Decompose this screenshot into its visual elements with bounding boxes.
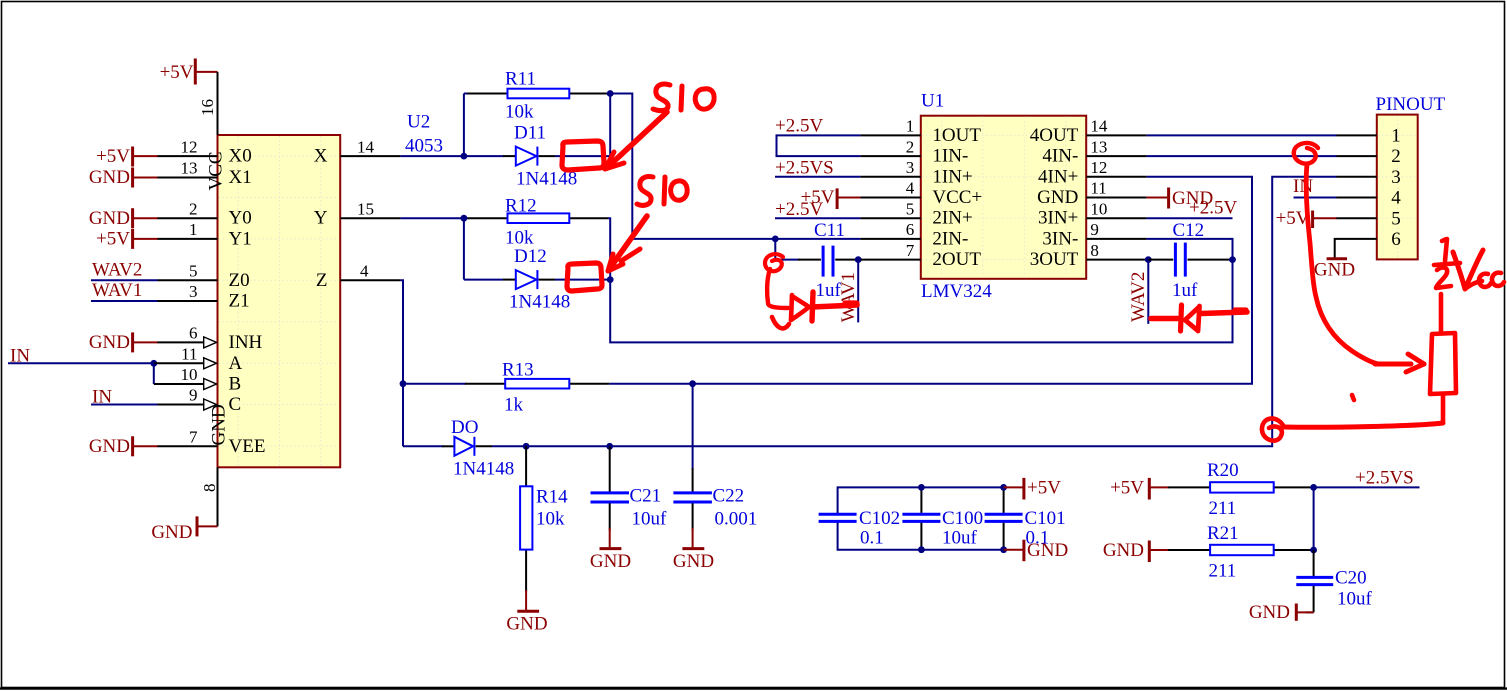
svg-text:+5V: +5V <box>1110 477 1144 498</box>
svg-text:+5V: +5V <box>160 62 194 83</box>
svg-text:3: 3 <box>189 282 198 301</box>
pin 3 wire Z1 <box>158 300 218 302</box>
pin 5 wire Z0 <box>158 279 218 281</box>
power port +5V (R20 left) <box>1110 477 1169 499</box>
svg-text:R20: R20 <box>1207 460 1239 481</box>
svg-text:5: 5 <box>1391 208 1401 229</box>
pin 1 wire <box>861 134 921 136</box>
wire WAV1 stub <box>857 260 859 323</box>
svg-text:LMV324: LMV324 <box>921 281 992 302</box>
capacitor C22 <box>673 468 712 531</box>
svg-text:Y1: Y1 <box>229 228 252 249</box>
svg-text:C21: C21 <box>630 486 662 507</box>
svg-text:GND: GND <box>506 614 547 635</box>
pin 5 wire <box>861 217 921 219</box>
svg-text:Z: Z <box>316 270 328 291</box>
svg-text:GND: GND <box>89 167 130 188</box>
annotation handwriting 1/2 Vcc <box>1434 239 1504 289</box>
svg-text:211: 211 <box>1209 561 1237 582</box>
wire +2.5V pin5 <box>775 217 861 219</box>
svg-text:10: 10 <box>181 365 198 384</box>
power port GND (pin 7 VEE) <box>89 436 158 457</box>
svg-text:5: 5 <box>906 199 915 218</box>
power port GND (pin 11) <box>1147 188 1214 209</box>
svg-text:X0: X0 <box>229 146 252 167</box>
wire X to D11 node <box>400 155 467 157</box>
svg-text:10uf: 10uf <box>942 528 978 549</box>
annotation text 510 (lower) <box>637 176 687 205</box>
svg-text:+2.5V: +2.5V <box>1189 198 1237 219</box>
power port GND (pinout pin 6) <box>1314 259 1355 281</box>
svg-text:1IN+: 1IN+ <box>932 166 972 187</box>
svg-text:1: 1 <box>906 117 915 136</box>
svg-text:U1: U1 <box>921 91 944 112</box>
svg-text:C20: C20 <box>1335 568 1367 589</box>
wire +2.5VS <box>775 176 861 178</box>
wire D12 right <box>555 279 610 281</box>
svg-text:GND: GND <box>89 436 130 457</box>
svg-text:1N4148: 1N4148 <box>453 459 514 480</box>
svg-text:14: 14 <box>1090 117 1108 136</box>
svg-text:10k: 10k <box>536 509 565 530</box>
pin 6 wire INH <box>158 341 204 343</box>
svg-text:3IN+: 3IN+ <box>1038 208 1078 229</box>
pin 3 wire <box>861 176 921 178</box>
svg-text:9: 9 <box>189 386 198 405</box>
wire D11 right <box>555 155 610 157</box>
svg-text:4IN-: 4IN- <box>1042 146 1078 167</box>
wire DO row to PINOUT pin3 riser <box>492 177 1337 447</box>
node +2.5VS junction <box>1310 484 1317 491</box>
wire Z corner down <box>400 280 403 446</box>
node D12 right junction <box>607 276 614 283</box>
power port GND (R14 bottom) <box>506 590 547 635</box>
power port GND (C22 bottom) <box>673 528 714 572</box>
node X-left junction <box>461 153 468 160</box>
node R11 right junction <box>607 90 614 97</box>
wire C22 riser <box>692 384 694 470</box>
pin 9 wire <box>1086 238 1146 240</box>
pin 1 wire Y1 <box>158 238 218 240</box>
node C12 right junction <box>1229 256 1236 263</box>
svg-text:+2.5VS: +2.5VS <box>1355 468 1414 489</box>
svg-text:Y: Y <box>314 208 328 229</box>
pin 7 wire <box>861 259 921 261</box>
pin 2 wire Y0 <box>158 217 218 219</box>
pin 6 wire <box>861 238 921 240</box>
pin 15 wire Y <box>340 217 400 219</box>
wire pin14 to PINOUT pin1 <box>1147 134 1337 136</box>
pin 12 wire <box>1086 176 1146 178</box>
svg-text:8: 8 <box>200 484 219 493</box>
capacitor C21 <box>591 446 630 530</box>
power port GND (C21 bottom) <box>590 528 631 572</box>
node C101 bottom junction <box>1000 546 1007 553</box>
pinout pin 2 stub <box>1337 155 1377 157</box>
pin 11 input triangle <box>204 358 217 369</box>
diode D12 <box>503 270 555 289</box>
wire R13 row right to PINOUT riser <box>609 177 1252 384</box>
wire pin9 to C12 right <box>1147 239 1233 260</box>
capacitor C20 <box>1296 550 1333 612</box>
svg-text:0.1: 0.1 <box>860 528 884 549</box>
svg-text:1k: 1k <box>504 395 524 416</box>
wire A-B link vertical <box>153 363 155 384</box>
svg-text:+2.5VS: +2.5VS <box>775 157 834 178</box>
svg-text:GND: GND <box>1103 540 1144 561</box>
pin 14 wire <box>1086 134 1146 136</box>
power port +5V (pin 4 VCC+) <box>801 187 861 209</box>
capacitor C102 <box>819 514 857 521</box>
svg-text:1: 1 <box>1391 126 1401 147</box>
svg-text:1: 1 <box>189 220 198 239</box>
svg-text:D11: D11 <box>514 123 546 144</box>
wire WAV1 <box>91 300 158 302</box>
wire WAV2 <box>91 279 158 281</box>
svg-text:3: 3 <box>906 158 915 177</box>
pin 13 wire <box>1086 155 1146 157</box>
svg-text:4: 4 <box>360 262 369 281</box>
node Y-left junction <box>461 215 468 222</box>
power port +5V (decoupling rail) <box>1004 477 1062 499</box>
svg-text:IN: IN <box>1293 176 1313 197</box>
power port GND (C20 bottom) <box>1249 602 1314 623</box>
node C101 top junction <box>1000 484 1007 491</box>
node DO/R14 junction <box>523 443 530 450</box>
annotation arrow to D12 pad <box>608 216 647 271</box>
svg-text:WAV1: WAV1 <box>838 272 859 322</box>
capacitor C101 <box>985 487 1023 549</box>
node R13/C22 junction <box>689 380 696 387</box>
svg-text:8: 8 <box>1090 241 1099 260</box>
wire R12 right corner down <box>608 218 610 279</box>
svg-text:R12: R12 <box>505 196 537 217</box>
pin 10 wire <box>1086 217 1146 219</box>
power port GND (pin 8 net) <box>151 516 217 543</box>
svg-text:GND: GND <box>89 332 130 353</box>
svg-text:WAV1: WAV1 <box>92 280 142 301</box>
pin 9 input triangle <box>204 399 217 410</box>
svg-text:R14: R14 <box>536 487 568 508</box>
node C100 top junction <box>918 484 925 491</box>
svg-text:2: 2 <box>189 199 198 218</box>
svg-text:X: X <box>314 146 328 167</box>
annotation loop on PINOUT pin2 with long curve to pot <box>1294 143 1424 372</box>
svg-text:12: 12 <box>181 137 198 156</box>
svg-text:R21: R21 <box>1207 523 1239 544</box>
svg-text:10uf: 10uf <box>1337 589 1373 610</box>
svg-text:GND: GND <box>1037 187 1078 208</box>
pinout pin 5 stub <box>1337 217 1377 219</box>
svg-text:6: 6 <box>1391 229 1401 250</box>
svg-text:GND: GND <box>590 551 631 572</box>
resistor R21 <box>1168 545 1314 555</box>
svg-text:+2.5V: +2.5V <box>775 199 823 220</box>
annotation box over D11 output <box>562 141 604 170</box>
annotation tiny tick mark <box>1352 395 1354 400</box>
diode D11 <box>503 147 555 166</box>
wire pin16 vertical <box>217 72 219 135</box>
svg-text:X1: X1 <box>229 167 252 188</box>
wire GND bottom rail <box>838 522 1004 550</box>
wire +2.5VS out <box>1314 486 1420 488</box>
wire R13 row left <box>403 383 466 385</box>
svg-text:4053: 4053 <box>405 136 443 157</box>
svg-text:3: 3 <box>1391 167 1401 188</box>
pin 13 wire X1 <box>158 177 218 179</box>
wire IN pinout <box>1294 197 1337 199</box>
pin 8 wire vertical <box>217 467 219 526</box>
svg-text:INH: INH <box>229 332 263 353</box>
pin 4 wire Z <box>340 279 400 281</box>
svg-text:Z1: Z1 <box>229 291 250 312</box>
svg-text:Z0: Z0 <box>229 270 250 291</box>
svg-text:+5V: +5V <box>1276 208 1310 229</box>
power port GND (pin 6 INH) <box>89 332 158 353</box>
wire DO row left corner <box>403 445 444 447</box>
svg-text:0.001: 0.001 <box>715 509 758 530</box>
svg-text:GND: GND <box>151 522 192 543</box>
svg-text:WAV2: WAV2 <box>92 259 142 280</box>
power port GND (R21 left) <box>1103 540 1169 562</box>
power port +5V (pin 1 Y1) <box>96 229 158 250</box>
power port +5V (pin 12 X0) <box>96 146 158 167</box>
wire pin13 to PINOUT pin2 <box>1147 155 1337 157</box>
svg-text:GND: GND <box>1249 602 1290 623</box>
power port +5V (pinout pin 5) <box>1276 208 1337 229</box>
pin 2 wire <box>861 155 921 157</box>
wire Y net down and across to C12 right <box>610 260 1232 343</box>
svg-text:PINOUT: PINOUT <box>1376 94 1446 115</box>
svg-text:2: 2 <box>906 137 915 156</box>
svg-text:+5V: +5V <box>96 229 130 250</box>
svg-text:12: 12 <box>1090 158 1107 177</box>
connector PINOUT body <box>1377 115 1418 260</box>
svg-text:+5V: +5V <box>1027 477 1061 498</box>
svg-text:10uf: 10uf <box>632 509 668 530</box>
wire +5V top rail <box>838 487 1004 514</box>
wire divider link vertical <box>1313 487 1315 550</box>
svg-text:C102: C102 <box>859 508 900 529</box>
svg-text:R13: R13 <box>502 360 534 381</box>
node 3OUT/WAV2 junction <box>1145 256 1152 263</box>
svg-text:A: A <box>229 353 243 374</box>
svg-text:WAV2: WAV2 <box>1128 272 1149 322</box>
wire junction to pin7 <box>858 259 862 261</box>
svg-text:2OUT: 2OUT <box>932 249 981 270</box>
annotation potentiometer sketch <box>1262 294 1456 441</box>
svg-text:1IN-: 1IN- <box>932 146 968 167</box>
wire +2.5V pin10 <box>1147 217 1233 219</box>
svg-text:13: 13 <box>1090 137 1107 156</box>
annotation squiggle diode at C11/WAV1 <box>765 254 857 328</box>
svg-text:7: 7 <box>906 241 915 260</box>
svg-text:GND: GND <box>89 208 130 229</box>
pinout pin 1 stub <box>1337 134 1377 136</box>
svg-text:C100: C100 <box>942 508 983 529</box>
wire X to D11 <box>464 155 504 157</box>
svg-text:Y0: Y0 <box>229 208 252 229</box>
power port GND (decoupling rail) <box>1004 540 1069 562</box>
pin 10 input triangle <box>204 379 217 390</box>
annotation text 510 (upper) <box>653 84 714 111</box>
capacitor C12 <box>1148 243 1232 277</box>
wire IN to C <box>91 404 158 406</box>
svg-text:C12: C12 <box>1173 220 1205 241</box>
wire up to R11 <box>463 94 465 157</box>
svg-text:2IN+: 2IN+ <box>932 208 972 229</box>
wire B row <box>154 383 204 385</box>
pin 8 wire <box>1086 259 1146 261</box>
svg-text:C11: C11 <box>814 220 845 241</box>
pin 11 wire <box>1086 197 1146 199</box>
svg-text:11: 11 <box>1090 179 1106 198</box>
svg-text:C22: C22 <box>713 486 745 507</box>
power port +5V (pin 16 net) <box>160 59 218 85</box>
node C100 bottom junction <box>918 546 925 553</box>
svg-text:4: 4 <box>906 179 915 198</box>
capacitor C100 <box>902 487 940 549</box>
svg-text:R11: R11 <box>505 69 536 90</box>
pin 7 wire VEE <box>158 445 218 447</box>
resistor R12 <box>468 213 609 223</box>
wire IN to A <box>8 362 154 364</box>
annotation squiggle diode at C12/WAV2 <box>1151 305 1247 331</box>
wire D11 link vertical <box>609 94 611 157</box>
svg-text:10k: 10k <box>505 102 534 123</box>
wire D12 link vertical left <box>463 218 465 279</box>
svg-text:2: 2 <box>1391 146 1401 167</box>
svg-text:VCC: VCC <box>206 151 227 190</box>
svg-text:VCC+: VCC+ <box>932 187 982 208</box>
svg-text:1uf: 1uf <box>1172 280 1198 301</box>
svg-text:D12: D12 <box>514 246 547 267</box>
wire D12 left <box>464 279 503 281</box>
svg-text:4OUT: 4OUT <box>1030 125 1079 146</box>
svg-text:GND: GND <box>1027 540 1068 561</box>
svg-text:211: 211 <box>1209 498 1237 519</box>
wire R11 left <box>464 93 468 95</box>
pinout pin 4 stub <box>1337 197 1377 199</box>
annotation box over D12 output <box>567 263 602 291</box>
resistor R20 <box>1168 482 1314 492</box>
svg-text:DO: DO <box>451 417 478 438</box>
svg-text:2IN-: 2IN- <box>932 228 968 249</box>
svg-text:3IN-: 3IN- <box>1042 228 1078 249</box>
pin 14 wire X <box>340 155 400 157</box>
node 2OUT/WAV1 junction <box>855 256 862 263</box>
resistor R13 <box>465 379 609 389</box>
power port GND (pin 13 X1) <box>89 167 158 188</box>
svg-text:4: 4 <box>1391 188 1401 209</box>
pin 11 wire A <box>154 362 204 364</box>
wire WAV2 stub <box>1147 260 1149 324</box>
svg-text:GND: GND <box>673 551 714 572</box>
svg-text:6: 6 <box>906 220 915 239</box>
wire 1OUT to 1IN- feedback <box>777 135 861 156</box>
svg-text:15: 15 <box>357 199 374 218</box>
svg-text:+5V: +5V <box>96 146 130 167</box>
node 2IN-/C11 junction <box>772 236 779 243</box>
junction on A wire <box>150 360 157 367</box>
node DO/C21 junction <box>606 443 613 450</box>
pinout pin 6 stub with GND drop <box>1335 239 1377 258</box>
power port GND (pin 2 Y0) <box>89 208 158 229</box>
svg-text:5: 5 <box>189 262 198 281</box>
node R21/C20 junction <box>1310 547 1317 554</box>
svg-text:1OUT: 1OUT <box>932 125 981 146</box>
svg-text:VEE: VEE <box>229 436 266 457</box>
svg-text:6: 6 <box>189 324 198 343</box>
pin 12 wire X0 <box>158 155 218 157</box>
resistor R11 <box>468 89 611 99</box>
svg-text:11: 11 <box>181 345 197 364</box>
pin 9 wire C <box>158 404 204 406</box>
IC U1 body <box>921 116 1086 279</box>
svg-text:13: 13 <box>181 159 198 178</box>
wire R11 right to corner <box>610 94 860 239</box>
svg-text:GND: GND <box>209 404 230 445</box>
svg-text:14: 14 <box>357 137 375 156</box>
svg-text:GND: GND <box>1314 259 1355 280</box>
svg-text:C: C <box>229 394 242 415</box>
svg-text:+2.5V: +2.5V <box>775 116 823 137</box>
capacitor C11 <box>798 246 858 277</box>
svg-text:9: 9 <box>1090 220 1099 239</box>
svg-text:3OUT: 3OUT <box>1030 249 1079 270</box>
resistor R14 (vertical) <box>520 446 532 592</box>
svg-text:1N4148: 1N4148 <box>509 292 570 313</box>
svg-text:16: 16 <box>198 99 217 116</box>
annotation arrow to D11 pad <box>605 112 667 169</box>
svg-text:U2: U2 <box>407 112 430 133</box>
diode DO <box>442 437 492 456</box>
node Z/R13 junction <box>400 380 407 387</box>
svg-text:4IN+: 4IN+ <box>1038 166 1078 187</box>
pin 6 input triangle <box>204 337 217 348</box>
wire C11 drop <box>775 239 800 260</box>
pinout pin 3 stub <box>1337 176 1377 178</box>
IC U2 body <box>218 135 341 467</box>
svg-text:10: 10 <box>1090 199 1107 218</box>
svg-text:7: 7 <box>189 428 198 447</box>
pin 4 wire <box>861 197 921 199</box>
wire Y to R12 node <box>400 217 467 219</box>
svg-text:B: B <box>229 374 242 395</box>
svg-text:C101: C101 <box>1025 508 1066 529</box>
